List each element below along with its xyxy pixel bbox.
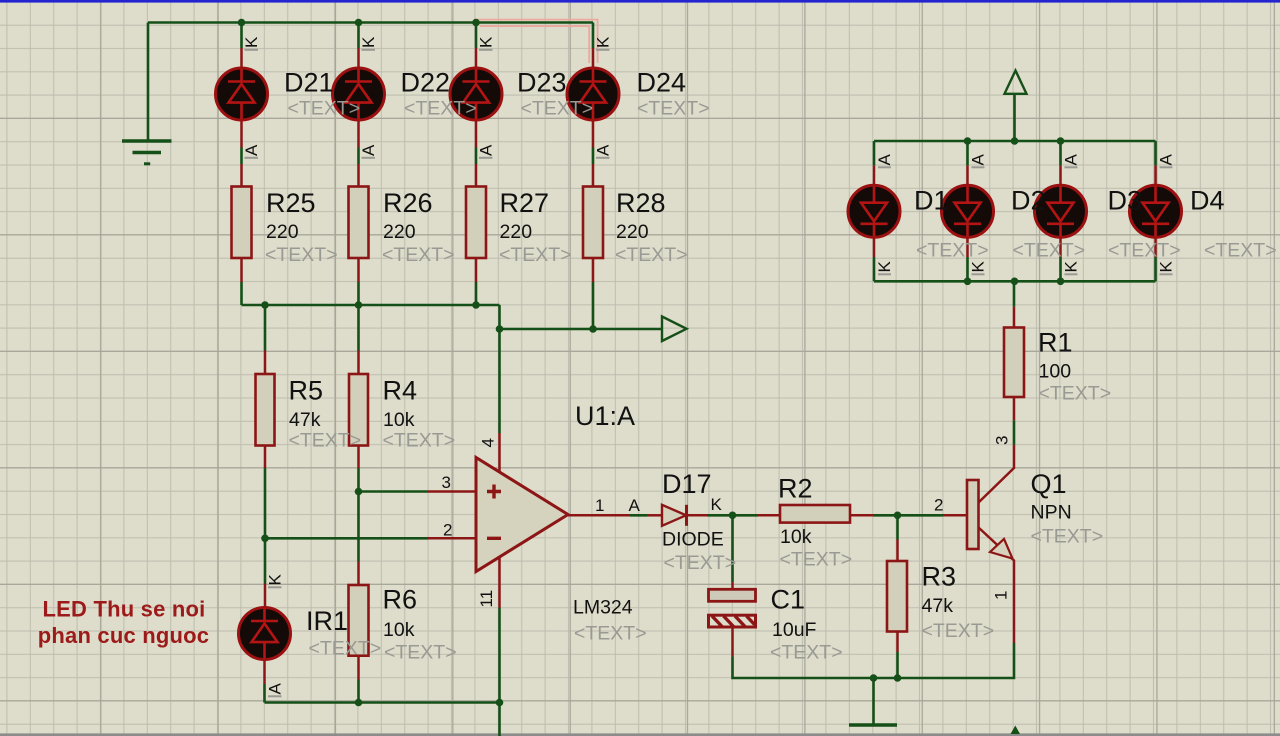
pin opamp 3	[428, 490, 476, 493]
svg-text:3: 3	[993, 436, 1012, 445]
svg-text:<TEXT>: <TEXT>	[288, 98, 361, 120]
pin R27 top	[475, 164, 478, 187]
svg-text:R28: R28	[616, 188, 666, 218]
wire R4 bottom to node	[357, 468, 360, 562]
svg-text:D4: D4	[1190, 186, 1225, 216]
pin D22 A	[357, 120, 360, 148]
pin R2 left	[758, 514, 780, 517]
wire pin2 horizontal	[265, 537, 428, 540]
LED D22	[333, 68, 385, 120]
wire R5 top	[264, 305, 267, 351]
svg-text:<TEXT>: <TEXT>	[383, 430, 456, 452]
wire R5 bottom to node	[264, 468, 267, 584]
svg-text:<TEXT>: <TEXT>	[382, 244, 455, 266]
transistor Q1	[967, 480, 1013, 559]
wire R1 bottom green	[1013, 420, 1016, 445]
pin opamp 4	[498, 433, 501, 472]
pin D21 K	[240, 48, 243, 68]
wire D22 top	[357, 23, 360, 49]
pin C1 top	[731, 582, 734, 589]
resistor R26	[349, 187, 369, 259]
wire D3 bottom	[1059, 257, 1062, 281]
pin IR1 A	[263, 660, 266, 685]
wire pin3 horizontal	[359, 490, 429, 493]
svg-text:LM324: LM324	[573, 597, 633, 619]
svg-text:D22: D22	[401, 68, 451, 98]
svg-text:<TEXT>: <TEXT>	[770, 642, 843, 664]
svg-text:IR1: IR1	[306, 606, 348, 636]
LED D24	[567, 68, 619, 120]
svg-text:A: A	[1157, 154, 1176, 166]
pin R28 top	[592, 164, 595, 187]
wire D3 top	[1059, 141, 1062, 166]
op-amp U1:A	[476, 458, 568, 572]
resistor R28	[583, 187, 603, 259]
svg-text:phan cuc nguoc: phan cuc nguoc	[38, 623, 209, 648]
pin D3 K	[1059, 237, 1062, 257]
svg-text:47k: 47k	[922, 595, 954, 617]
resistor R27	[466, 187, 486, 259]
pin IR1 K	[264, 584, 267, 609]
pin R6 top	[357, 562, 360, 586]
svg-text:D3: D3	[1108, 186, 1143, 216]
pin opamp out	[568, 514, 630, 517]
svg-text:<TEXT>: <TEXT>	[499, 244, 572, 266]
junction dots	[238, 19, 246, 27]
svg-text:<TEXT>: <TEXT>	[922, 620, 995, 642]
pin Q1 emitter	[978, 527, 1014, 643]
wire C1 top	[731, 515, 734, 582]
wire R4 top	[357, 305, 360, 351]
diode D17	[662, 505, 686, 526]
svg-text:<TEXT>: <TEXT>	[664, 552, 737, 574]
svg-text:K: K	[875, 261, 894, 273]
svg-text:2: 2	[443, 521, 452, 540]
pin Q1 base	[943, 514, 967, 517]
resistor R3	[887, 561, 907, 632]
svg-text:D23: D23	[517, 68, 567, 98]
pin D3 A	[1059, 166, 1062, 186]
svg-text:2: 2	[934, 496, 943, 515]
pin D2 A	[966, 166, 969, 186]
svg-text:220: 220	[500, 221, 533, 243]
title-bar sliver	[0, 0, 1280, 3]
output arrow terminal	[662, 317, 687, 342]
svg-text:3: 3	[442, 473, 451, 492]
LED D3	[1035, 185, 1087, 237]
svg-text:A: A	[1062, 154, 1081, 166]
svg-text:R5: R5	[289, 376, 324, 406]
wire D-frame top bus	[874, 140, 1156, 143]
pin D23 K	[475, 48, 478, 68]
pin opamp 2	[428, 537, 476, 540]
wire D23-R27	[475, 148, 478, 165]
svg-text:A: A	[594, 144, 613, 156]
pin D22 K	[357, 48, 360, 68]
svg-text:D24: D24	[637, 68, 687, 98]
svg-text:D2: D2	[1011, 186, 1046, 216]
wire power stem	[1013, 94, 1016, 141]
wire bus1-bus2	[498, 305, 501, 329]
svg-text:A: A	[969, 154, 988, 166]
wire D21-R25	[240, 148, 243, 165]
svg-text:R3: R3	[922, 562, 957, 592]
pin R3 bottom	[896, 631, 899, 652]
wire R26 bottom	[357, 282, 360, 305]
pin R25 bottom	[240, 258, 243, 282]
wire R28 bottom	[592, 282, 595, 329]
pin D21 A	[240, 120, 243, 148]
svg-text:Q1: Q1	[1031, 469, 1067, 499]
wire ground2 stem	[872, 678, 875, 724]
svg-text:10k: 10k	[780, 526, 812, 548]
svg-text:<TEXT>: <TEXT>	[780, 549, 853, 571]
svg-text:<TEXT>: <TEXT>	[265, 244, 338, 266]
resistor R5	[256, 374, 275, 446]
svg-text:<TEXT>: <TEXT>	[384, 642, 457, 664]
capacitor C1 hatched plate	[709, 615, 756, 627]
svg-text:220: 220	[616, 221, 649, 243]
pin R25 top	[240, 164, 243, 187]
pin R27 bottom	[475, 258, 478, 282]
resistor R6	[349, 585, 369, 656]
svg-text:A: A	[875, 154, 894, 166]
LED D23	[450, 68, 502, 120]
LED IR1	[239, 608, 291, 660]
svg-text:A: A	[629, 496, 641, 515]
wire D4 bottom	[1154, 257, 1157, 281]
wire R6 bottom	[357, 680, 360, 703]
svg-text:<TEXT>: <TEXT>	[309, 638, 382, 660]
svg-text:K: K	[1062, 261, 1081, 273]
wire D2 bottom	[966, 257, 969, 281]
pin D23 A	[475, 120, 478, 148]
pin D1 A	[873, 166, 876, 186]
wire bottom-left bus	[265, 701, 500, 704]
svg-text:<TEXT>: <TEXT>	[521, 98, 594, 120]
svg-text:<TEXT>: <TEXT>	[1013, 240, 1086, 262]
svg-text:K: K	[266, 574, 285, 586]
svg-text:<TEXT>: <TEXT>	[574, 623, 647, 645]
wire R27 bottom	[475, 282, 478, 305]
svg-text:K: K	[969, 261, 988, 273]
pin D24 K	[592, 48, 595, 68]
svg-text:R2: R2	[778, 474, 813, 504]
wire pin11 down	[498, 608, 501, 736]
svg-text:1: 1	[992, 591, 1011, 600]
power arrow tip (bottom, clipped)	[1011, 726, 1021, 735]
wire bus2 to output arrow	[500, 328, 662, 331]
svg-text:K: K	[242, 36, 261, 48]
wire right bus	[733, 643, 1015, 678]
LED D2	[942, 185, 994, 237]
ground (left)	[122, 141, 172, 164]
wire D-frame bottom bus	[874, 280, 1156, 283]
svg-text:220: 220	[266, 221, 299, 243]
pin D2 K	[966, 237, 969, 257]
pin R1 bottom	[1013, 397, 1016, 420]
pin D24 A	[592, 120, 595, 148]
svg-text:4: 4	[479, 438, 498, 447]
svg-text:R25: R25	[266, 188, 316, 218]
pin R2 right	[850, 514, 873, 517]
svg-text:K: K	[359, 36, 378, 48]
LED D21	[216, 68, 268, 120]
svg-text:R27: R27	[500, 188, 550, 218]
svg-text:<TEXT>: <TEXT>	[289, 430, 362, 452]
svg-text:K: K	[1157, 261, 1176, 273]
pin C1 bottom	[731, 627, 734, 656]
pin opamp 11	[498, 557, 501, 608]
wire IR1 bottom	[263, 684, 266, 703]
svg-text:D21: D21	[284, 68, 334, 98]
wire D24 top	[592, 23, 595, 49]
svg-text:100: 100	[1039, 361, 1072, 383]
svg-text:220: 220	[383, 221, 416, 243]
pin R5 top	[264, 351, 267, 375]
pin R4 top	[357, 351, 360, 375]
svg-text:R4: R4	[383, 376, 418, 406]
wire D24-R28	[592, 148, 595, 165]
LED D4	[1130, 185, 1182, 237]
wire opamp out green	[630, 514, 647, 517]
svg-text:C1: C1	[771, 585, 806, 615]
svg-text:A: A	[477, 144, 496, 156]
svg-text:D1: D1	[914, 186, 949, 216]
wire D2 top	[966, 141, 969, 166]
wire D1 top	[873, 141, 876, 166]
pin R1 top	[1013, 307, 1016, 328]
wire R1 top green	[1013, 281, 1016, 307]
bottom window edge	[0, 733, 1280, 736]
svg-text:NPN: NPN	[1031, 502, 1072, 524]
svg-text:<TEXT>: <TEXT>	[404, 98, 477, 120]
pin R28 bottom	[592, 258, 595, 282]
svg-text:<TEXT>: <TEXT>	[1031, 526, 1104, 548]
svg-text:LED Thu se noi: LED Thu se noi	[43, 597, 206, 622]
pin R3 top	[896, 540, 899, 561]
wire D21 top	[240, 23, 243, 49]
resistor R2	[780, 505, 850, 523]
wire D4 top	[1154, 141, 1157, 166]
svg-text:1: 1	[595, 496, 604, 515]
svg-text:R1: R1	[1038, 328, 1073, 358]
power arrow	[1005, 71, 1027, 94]
svg-text:<TEXT>: <TEXT>	[1039, 383, 1112, 405]
pin D4 A	[1154, 166, 1157, 186]
svg-text:47k: 47k	[289, 409, 321, 431]
svg-text:11: 11	[477, 590, 496, 608]
wire bus1	[242, 304, 500, 307]
svg-text:<TEXT>: <TEXT>	[615, 244, 688, 266]
wire pin4 riser	[498, 329, 501, 433]
pin D17 K	[687, 514, 708, 517]
resistor R1	[1004, 328, 1024, 398]
svg-text:R26: R26	[383, 188, 433, 218]
svg-text:10k: 10k	[383, 409, 415, 431]
svg-text:DIODE: DIODE	[662, 529, 724, 551]
ground (bottom)	[849, 723, 897, 727]
svg-text:U1:A: U1:A	[575, 401, 635, 431]
pin Q1 collector	[978, 445, 1014, 503]
pin R6 bottom	[357, 656, 360, 680]
wire D1 bottom	[873, 257, 876, 281]
svg-text:D17: D17	[662, 469, 712, 499]
svg-text:<TEXT>: <TEXT>	[916, 240, 989, 262]
svg-text:<TEXT>: <TEXT>	[1108, 240, 1181, 262]
LED D1	[848, 185, 900, 237]
svg-text:A: A	[266, 683, 285, 695]
wire D17K to R2	[707, 514, 758, 517]
pin D4 K	[1154, 237, 1157, 257]
pin R26 top	[357, 164, 360, 187]
selection highlight on top bus segment	[474, 20, 598, 63]
svg-text:K: K	[711, 495, 723, 514]
capacitor C1 plate	[709, 589, 756, 601]
wire top bus	[148, 21, 593, 24]
svg-text:K: K	[594, 36, 613, 48]
pin R26 bottom	[357, 258, 360, 282]
svg-text:A: A	[359, 144, 378, 156]
wire R25 bottom	[240, 282, 243, 305]
pin D1 K	[873, 237, 876, 257]
svg-text:K: K	[477, 36, 496, 48]
wire R2 to Q1 base	[873, 514, 943, 517]
pin D17 A	[647, 514, 662, 517]
pin R4 bottom	[357, 446, 360, 469]
wire ground stem	[147, 23, 150, 140]
svg-text:<TEXT>: <TEXT>	[1204, 240, 1277, 262]
wire D23 top	[475, 23, 478, 49]
svg-text:R6: R6	[383, 585, 418, 615]
wire R3 top	[896, 515, 899, 539]
svg-text:10k: 10k	[383, 619, 415, 641]
pin R5 bottom	[264, 446, 267, 469]
wire D22-R26	[357, 148, 360, 165]
resistor R25	[232, 187, 252, 259]
svg-text:A: A	[242, 144, 261, 156]
wire R3 bottom	[896, 652, 899, 678]
svg-text:10uF: 10uF	[772, 619, 817, 641]
resistor R4	[349, 374, 368, 446]
svg-text:<TEXT>: <TEXT>	[637, 98, 710, 120]
